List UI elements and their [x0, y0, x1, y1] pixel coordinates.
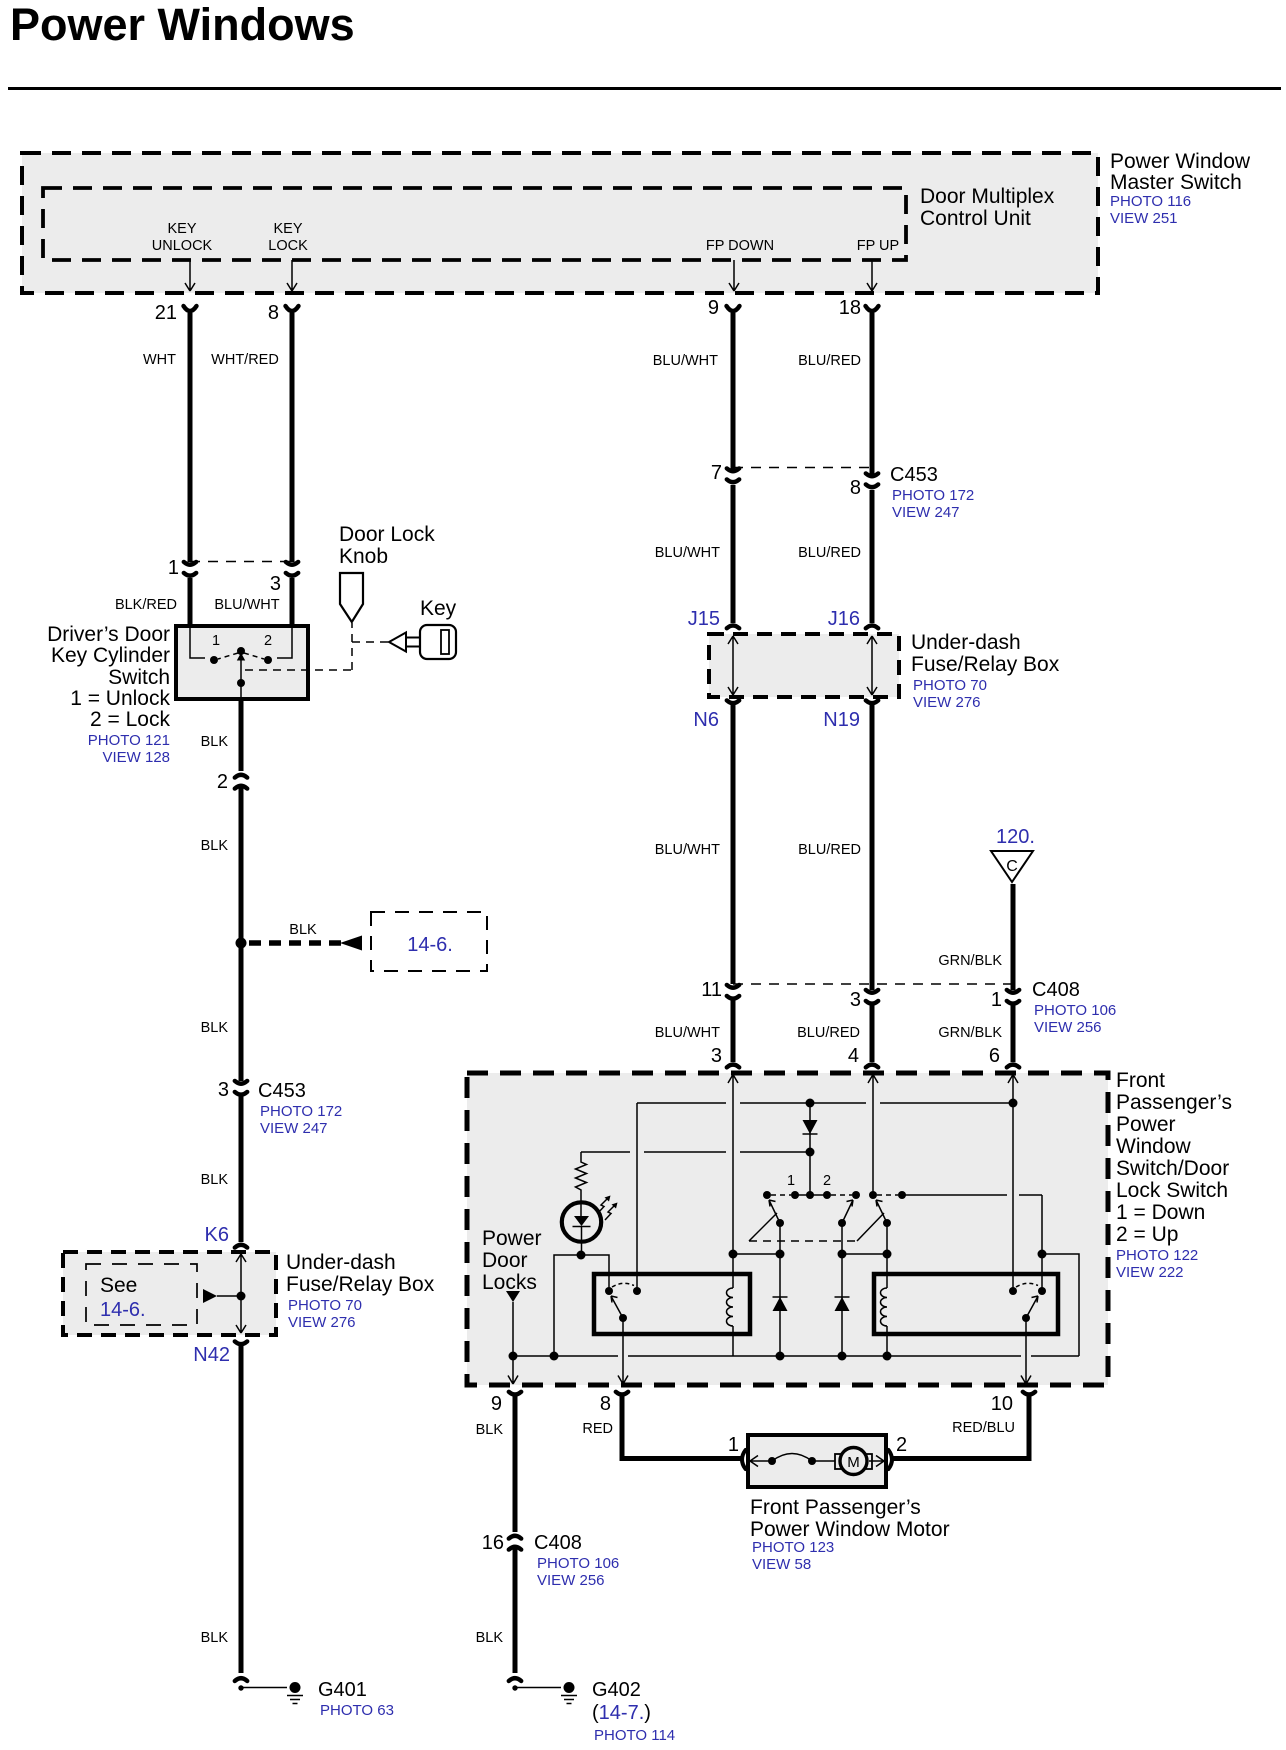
svg-text:G401: G401 — [318, 1679, 367, 1701]
arrow See 14-6 to wire — [203, 1289, 217, 1303]
wire common BLK below switch — [239, 699, 244, 771]
wire P3 down to relay coil R — [886, 1223, 888, 1288]
svg-text:WHT: WHT — [143, 352, 176, 368]
svg-text:3: 3 — [711, 1045, 722, 1067]
svg-text:PHOTO 172: PHOTO 172 — [260, 1103, 342, 1120]
arrow FP DOWN to pin 9 — [729, 260, 739, 291]
connector C408 dashed link — [733, 983, 1013, 985]
svg-text:FP DOWN: FP DOWN — [706, 238, 774, 254]
wire P2 down with diode D4 (up) — [841, 1223, 843, 1356]
svg-text:9: 9 — [708, 297, 719, 319]
svg-text:11: 11 — [701, 979, 722, 1001]
svg-text:BLU/WHT: BLU/WHT — [655, 1025, 720, 1041]
svg-text:Door: Door — [482, 1249, 528, 1272]
wire 18 BLU/RED — [870, 313, 875, 474]
svg-text:BLK: BLK — [201, 1630, 229, 1646]
svg-text:C408: C408 — [534, 1532, 582, 1554]
svg-text:VIEW 58: VIEW 58 — [752, 1556, 811, 1573]
svg-text:GRN/BLK: GRN/BLK — [938, 953, 1002, 969]
svg-text:PHOTO 70: PHOTO 70 — [913, 677, 987, 694]
svg-text:FP UP: FP UP — [857, 238, 899, 254]
exit pin 9 arrow — [508, 1356, 518, 1384]
relay left pole wire to pin 8 exit — [618, 1318, 628, 1384]
svg-text:N19: N19 — [823, 709, 860, 731]
rocker pivot P1 arrow — [776, 1219, 784, 1227]
svg-text:BLK: BLK — [476, 1422, 504, 1438]
svg-text:Window: Window — [1116, 1135, 1192, 1158]
door lock knob symbol — [340, 573, 363, 622]
box Front Passenger's Power Window Switch/Door Lock Switch — [467, 1073, 1108, 1385]
rocker row links — [771, 1194, 791, 1196]
svg-text:14-6.: 14-6. — [100, 1299, 146, 1321]
svg-text:Power: Power — [1116, 1113, 1176, 1136]
svg-text:Door Multiplex: Door Multiplex — [920, 185, 1055, 208]
svg-text:Passenger’s: Passenger’s — [1116, 1091, 1232, 1114]
svg-text:BLU/RED: BLU/RED — [798, 545, 861, 561]
ground G401 — [235, 1678, 247, 1681]
svg-text:PHOTO 123: PHOTO 123 — [752, 1539, 834, 1556]
wire N19 BLU/RED — [870, 704, 875, 990]
svg-text:Locks: Locks — [482, 1271, 537, 1294]
svg-text:VIEW 222: VIEW 222 — [1116, 1264, 1184, 1281]
svg-text:N6: N6 — [693, 709, 719, 731]
relay left coil — [727, 1288, 734, 1326]
svg-text:1: 1 — [212, 633, 220, 649]
wire pin 10 RED/BLU to motor — [891, 1395, 1029, 1459]
svg-text:See: See — [100, 1274, 137, 1297]
relay right coil — [881, 1288, 887, 1326]
svg-text:Switch: Switch — [108, 666, 170, 689]
LED emission arrows — [598, 1197, 609, 1213]
rocker switch contacts row — [763, 1191, 771, 1199]
svg-text:BLU/WHT: BLU/WHT — [653, 353, 718, 369]
svg-text:Door Lock: Door Lock — [339, 523, 435, 546]
wire line B horizontal — [581, 1151, 810, 1153]
svg-text:BLU/WHT: BLU/WHT — [655, 545, 720, 561]
relay left pole arrow — [619, 1314, 627, 1322]
relay box right — [874, 1274, 1058, 1334]
svg-text:2: 2 — [264, 633, 272, 649]
switch common arrow — [240, 659, 242, 682]
wire 9 BLU/WHT — [731, 313, 736, 469]
motor M1 Front Passenger's Power Window Motor — [748, 1435, 886, 1487]
wire J16-N19 internal — [867, 636, 877, 695]
svg-text:KEY: KEY — [273, 221, 302, 237]
svg-text:VIEW 251: VIEW 251 — [1110, 210, 1178, 227]
svg-text:14-6.: 14-6. — [407, 934, 453, 956]
svg-text:BLK: BLK — [201, 1020, 229, 1036]
switch internal terminal 2 — [277, 626, 292, 658]
link to door lock knob and key (dashed) — [245, 623, 388, 670]
ground bus inside box — [513, 1355, 1079, 1357]
svg-text:2: 2 — [217, 771, 228, 793]
wire 7 BLU/WHT — [731, 485, 736, 623]
svg-text:2 = Up: 2 = Up — [1116, 1223, 1178, 1246]
wire LED to relay contact L1 — [581, 1255, 609, 1291]
svg-text:Under-dash: Under-dash — [911, 631, 1021, 654]
diode D1 (down) — [809, 1103, 811, 1195]
svg-text:J15: J15 — [688, 608, 720, 630]
box reference 14-6. — [371, 912, 487, 971]
svg-text:21: 21 — [155, 302, 177, 324]
svg-text:Fuse/Relay Box: Fuse/Relay Box — [286, 1273, 435, 1296]
svg-text:Knob: Knob — [339, 545, 388, 568]
svg-text:BLK: BLK — [289, 922, 317, 938]
motor right lead arrow — [869, 1456, 884, 1467]
svg-text:K6: K6 — [205, 1224, 229, 1246]
connector C triangle — [991, 851, 1033, 882]
svg-text:PHOTO 114: PHOTO 114 — [594, 1727, 675, 1744]
svg-text:PHOTO 172: PHOTO 172 — [892, 487, 974, 504]
relay box left — [594, 1274, 750, 1334]
svg-text:BLK: BLK — [201, 1172, 229, 1188]
svg-text:7: 7 — [711, 462, 722, 484]
svg-text:C453: C453 — [890, 464, 938, 486]
svg-text:1 = Unlock: 1 = Unlock — [70, 687, 170, 710]
node junction 14-6 branch — [236, 938, 247, 949]
svg-text:KEY: KEY — [167, 221, 196, 237]
svg-text:120.: 120. — [996, 826, 1035, 848]
entry pin 3 line to relay coil L — [728, 1074, 738, 1288]
svg-text:PHOTO 122: PHOTO 122 — [1116, 1247, 1198, 1264]
svg-text:8: 8 — [600, 1393, 611, 1415]
wire to right edge down to bus — [1042, 1254, 1079, 1356]
svg-text:BLU/RED: BLU/RED — [798, 353, 861, 369]
wire LED to bus — [554, 1255, 581, 1356]
wire segment P2 to coil R — [842, 1253, 887, 1255]
svg-text:C453: C453 — [258, 1080, 306, 1102]
wire GRN/BLK — [1011, 884, 1016, 990]
wire P1 down with diode D3 (up) — [779, 1223, 781, 1356]
wire 1 BLK/RED — [188, 578, 193, 626]
box U1 Power Window Master Switch (outer dashed) — [22, 153, 1098, 293]
arrow Power Door Locks — [506, 1291, 520, 1302]
svg-text:Switch/Door: Switch/Door — [1116, 1157, 1229, 1180]
wire pin3 lower BLU/WHT — [731, 997, 736, 1062]
svg-text:16: 16 — [482, 1532, 504, 1554]
relay left contacts — [605, 1287, 613, 1295]
resistor R1 — [576, 1152, 587, 1202]
svg-text:2: 2 — [823, 1173, 831, 1189]
svg-text:1: 1 — [991, 989, 1002, 1011]
svg-text:Power Window: Power Window — [1110, 150, 1251, 173]
svg-text:G402: G402 — [592, 1679, 641, 1701]
svg-text:1 = Down: 1 = Down — [1116, 1201, 1205, 1224]
wire BLK to node — [239, 786, 244, 1081]
svg-text:10: 10 — [991, 1393, 1013, 1415]
svg-text:Power Windows: Power Windows — [10, 0, 355, 50]
box Under-dash Fuse/Relay Box (left) — [63, 1252, 276, 1335]
svg-text:3: 3 — [850, 989, 861, 1011]
key symbol — [389, 633, 406, 652]
wire line A horizontal — [637, 1102, 1012, 1104]
wire 8 WHT/RED — [290, 313, 295, 562]
rocker linkage — [749, 1213, 777, 1241]
svg-text:M: M — [847, 1454, 860, 1471]
rocker pivot P2 arrow — [838, 1219, 846, 1227]
svg-text:VIEW 247: VIEW 247 — [892, 504, 960, 521]
svg-text:Fuse/Relay Box: Fuse/Relay Box — [911, 653, 1060, 676]
svg-text:VIEW 256: VIEW 256 — [537, 1572, 605, 1589]
arrow FP UP to pin 18 — [867, 260, 877, 291]
wire 8 BLU/RED — [870, 490, 875, 623]
svg-text:BLK: BLK — [476, 1630, 504, 1646]
box Under-dash Fuse/Relay Box (right) — [709, 634, 899, 697]
wire segment coil L to P1 — [733, 1253, 780, 1255]
box Driver's Door Key Cylinder Switch — [176, 626, 308, 699]
svg-text:3: 3 — [218, 1079, 229, 1101]
connector pins 1/3 dashed link — [190, 561, 292, 563]
node LED common — [577, 1251, 586, 1260]
svg-text:1: 1 — [728, 1434, 739, 1456]
svg-text:Front: Front — [1116, 1069, 1165, 1092]
title rule — [8, 87, 1281, 90]
svg-text:WHT/RED: WHT/RED — [211, 352, 279, 368]
motor armature — [835, 1454, 841, 1469]
switch internal terminal 1 — [190, 626, 205, 658]
svg-text:RED/BLU: RED/BLU — [952, 1420, 1015, 1436]
svg-text:9: 9 — [491, 1393, 502, 1415]
wire down to relay contact R1 — [636, 1103, 638, 1291]
svg-text:Key Cylinder: Key Cylinder — [51, 644, 170, 667]
motor internal brush arc — [750, 1456, 770, 1467]
svg-text:VIEW 247: VIEW 247 — [260, 1120, 328, 1137]
svg-text:BLU/RED: BLU/RED — [798, 842, 861, 858]
wire K6-N42 internal — [236, 1254, 246, 1333]
box See 14-6. (inner dashed) — [86, 1264, 197, 1325]
svg-text:6: 6 — [989, 1045, 1000, 1067]
svg-text:8: 8 — [850, 477, 861, 499]
svg-text:Control Unit: Control Unit — [920, 207, 1031, 230]
entry pin 4 line — [868, 1074, 878, 1195]
svg-text:BLK: BLK — [201, 734, 229, 750]
wire 3 BLU/WHT — [290, 578, 295, 626]
LED D2 indicator — [562, 1202, 601, 1241]
svg-text:PHOTO 121: PHOTO 121 — [88, 732, 170, 749]
svg-text:3: 3 — [270, 573, 281, 595]
svg-text:Driver’s Door: Driver’s Door — [47, 623, 170, 646]
svg-text:18: 18 — [839, 297, 861, 319]
svg-text:VIEW 128: VIEW 128 — [102, 749, 170, 766]
arrow to 14-6 — [340, 936, 362, 951]
arrow KEY LOCK to pin 8 — [287, 260, 297, 291]
box Door Multiplex Control Unit (inner dashed) — [43, 188, 906, 260]
svg-text:VIEW 276: VIEW 276 — [288, 1314, 356, 1331]
svg-text:PHOTO 70: PHOTO 70 — [288, 1297, 362, 1314]
wire BLK to G401 — [239, 1345, 244, 1673]
svg-text:BLU/WHT: BLU/WHT — [655, 842, 720, 858]
svg-text:Power Window Motor: Power Window Motor — [750, 1518, 950, 1541]
svg-text:PHOTO 106: PHOTO 106 — [537, 1555, 619, 1572]
wire 21 WHT — [188, 313, 193, 562]
svg-text:1: 1 — [168, 557, 179, 579]
svg-text:1: 1 — [787, 1173, 795, 1189]
svg-text:GRN/BLK: GRN/BLK — [938, 1025, 1002, 1041]
wire pin 8 RED to motor — [622, 1395, 741, 1459]
svg-text:BLK: BLK — [201, 838, 229, 854]
svg-text:VIEW 256: VIEW 256 — [1034, 1019, 1102, 1036]
relay right contacts — [1009, 1287, 1017, 1295]
wire pin4 lower BLU/RED — [870, 1003, 875, 1062]
svg-text:(14-7.): (14-7.) — [592, 1702, 651, 1724]
svg-text:J16: J16 — [828, 608, 860, 630]
svg-text:BLU/RED: BLU/RED — [797, 1025, 860, 1041]
relay right pole wire to pin 10 exit — [1021, 1318, 1031, 1384]
svg-text:Lock Switch: Lock Switch — [1116, 1179, 1228, 1202]
entry pin 6 line — [1008, 1074, 1018, 1291]
svg-text:Power: Power — [482, 1227, 542, 1250]
wire N6 BLU/WHT — [731, 704, 736, 984]
svg-text:2: 2 — [896, 1434, 907, 1456]
svg-text:LOCK: LOCK — [268, 238, 308, 254]
svg-text:BLK/RED: BLK/RED — [115, 597, 177, 613]
svg-text:PHOTO 63: PHOTO 63 — [320, 1702, 394, 1719]
wire J15-N6 internal — [728, 636, 738, 695]
wire BLK to K6 — [239, 1095, 244, 1242]
svg-text:Front Passenger’s: Front Passenger’s — [750, 1496, 921, 1519]
switch wiper pivot — [237, 647, 245, 655]
svg-text:UNLOCK: UNLOCK — [152, 238, 213, 254]
svg-text:N42: N42 — [193, 1344, 230, 1366]
svg-text:VIEW 276: VIEW 276 — [913, 694, 981, 711]
wire contact G right run — [902, 1194, 1042, 1196]
svg-text:PHOTO 106: PHOTO 106 — [1034, 1002, 1116, 1019]
svg-text:PHOTO 116: PHOTO 116 — [1110, 193, 1191, 210]
wire dashed branch BLK to 14-6 — [249, 940, 342, 946]
ground G402 — [509, 1678, 521, 1681]
svg-text:4: 4 — [848, 1045, 859, 1067]
connector C453 dashed link — [733, 467, 872, 469]
svg-text:Key: Key — [420, 597, 457, 620]
svg-text:8: 8 — [268, 302, 279, 324]
svg-text:C408: C408 — [1032, 979, 1080, 1001]
relay right pole arrow — [1022, 1314, 1030, 1322]
wire pin6 lower GRN/BLK — [1011, 1003, 1016, 1062]
svg-text:Master Switch: Master Switch — [1110, 171, 1242, 194]
svg-text:Under-dash: Under-dash — [286, 1251, 396, 1274]
svg-text:2 = Lock: 2 = Lock — [90, 708, 170, 731]
svg-text:C: C — [1006, 858, 1018, 875]
wire BLK to G402 — [513, 1547, 518, 1673]
wire pin 9 BLK — [513, 1395, 518, 1532]
svg-text:BLU/WHT: BLU/WHT — [214, 597, 279, 613]
rocker pivot P3 arrow — [883, 1219, 891, 1227]
arrow KEY UNLOCK to pin 21 — [185, 260, 195, 291]
svg-text:RED: RED — [582, 1421, 613, 1437]
